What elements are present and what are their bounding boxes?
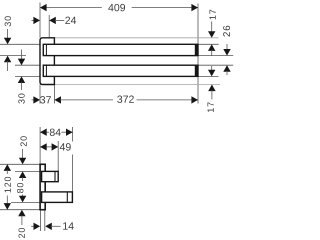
ext plate right bottom [44, 210, 46, 231]
dimension 37 [32, 99, 35, 101]
arm 1 side view [42, 171, 59, 181]
dimension 120 [4, 164, 11, 171]
ext bar2 bottom left [15, 75, 40, 77]
dimension 30 bar2 [21, 50, 23, 60]
ext wall top (side) [39, 127, 41, 164]
guide plate bottom [54, 84, 220, 86]
ext arm2 tip (upper) [72, 127, 74, 142]
extension line wall left (top) [39, 3, 41, 38]
dimension 84 [40, 131, 49, 133]
dimension 14 [31, 225, 34, 227]
arm1 cap seam [54, 171, 56, 181]
ext bar1 top left [0, 43, 40, 45]
bar1 end cap [195, 44, 198, 55]
arm 2 side view [42, 192, 73, 203]
dimension 409 [40, 7, 102, 9]
ext bar1 bottom left [0, 55, 26, 57]
dimension 24 [32, 19, 35, 21]
ext plate left bottom [39, 210, 41, 231]
ext arm2 bottom left [11, 201, 42, 203]
bar2 end cap [195, 65, 198, 76]
ext plate top left [0, 163, 40, 165]
ext bar1 bottom right [198, 55, 233, 57]
extension line bar tip [197, 4, 199, 104]
ext bar2 bottom right [198, 75, 219, 77]
ext arm2 tip (lower) [72, 155, 74, 192]
dimension 17 bottom right [211, 66, 213, 71]
bar 1 (upper arm) [43, 44, 198, 55]
bar2 pivot seam [45, 65, 47, 76]
ext plate bottom left [0, 209, 40, 211]
guide plate top [54, 37, 218, 39]
bar1 pivot seam [45, 44, 47, 55]
dimension 30 bar1 [7, 29, 9, 39]
wall plate side view [40, 164, 45, 209]
ext bar2 top right [198, 64, 233, 66]
dimension 49 [40, 146, 58, 148]
dimension 20 bottom [18, 210, 25, 217]
wall plate plan view [40, 38, 54, 85]
ext bar2 top left [15, 64, 40, 66]
extension line plate right [53, 85, 55, 104]
dimension 80 [22, 177, 24, 181]
bar 2 (lower arm) [43, 65, 198, 76]
dimension 372 [54, 96, 61, 103]
dimension 17 top right [211, 22, 213, 33]
arm2 cap seam [66, 192, 68, 203]
extension line wall left (bottom) [39, 85, 41, 104]
extension line 24-ref [48, 15, 50, 38]
ext arm1 tip [57, 141, 59, 171]
dimension 26 [226, 44, 228, 50]
dimension 20 top [22, 149, 24, 159]
ext arm1 top left [15, 170, 42, 172]
ext bar1 top right [198, 43, 219, 45]
